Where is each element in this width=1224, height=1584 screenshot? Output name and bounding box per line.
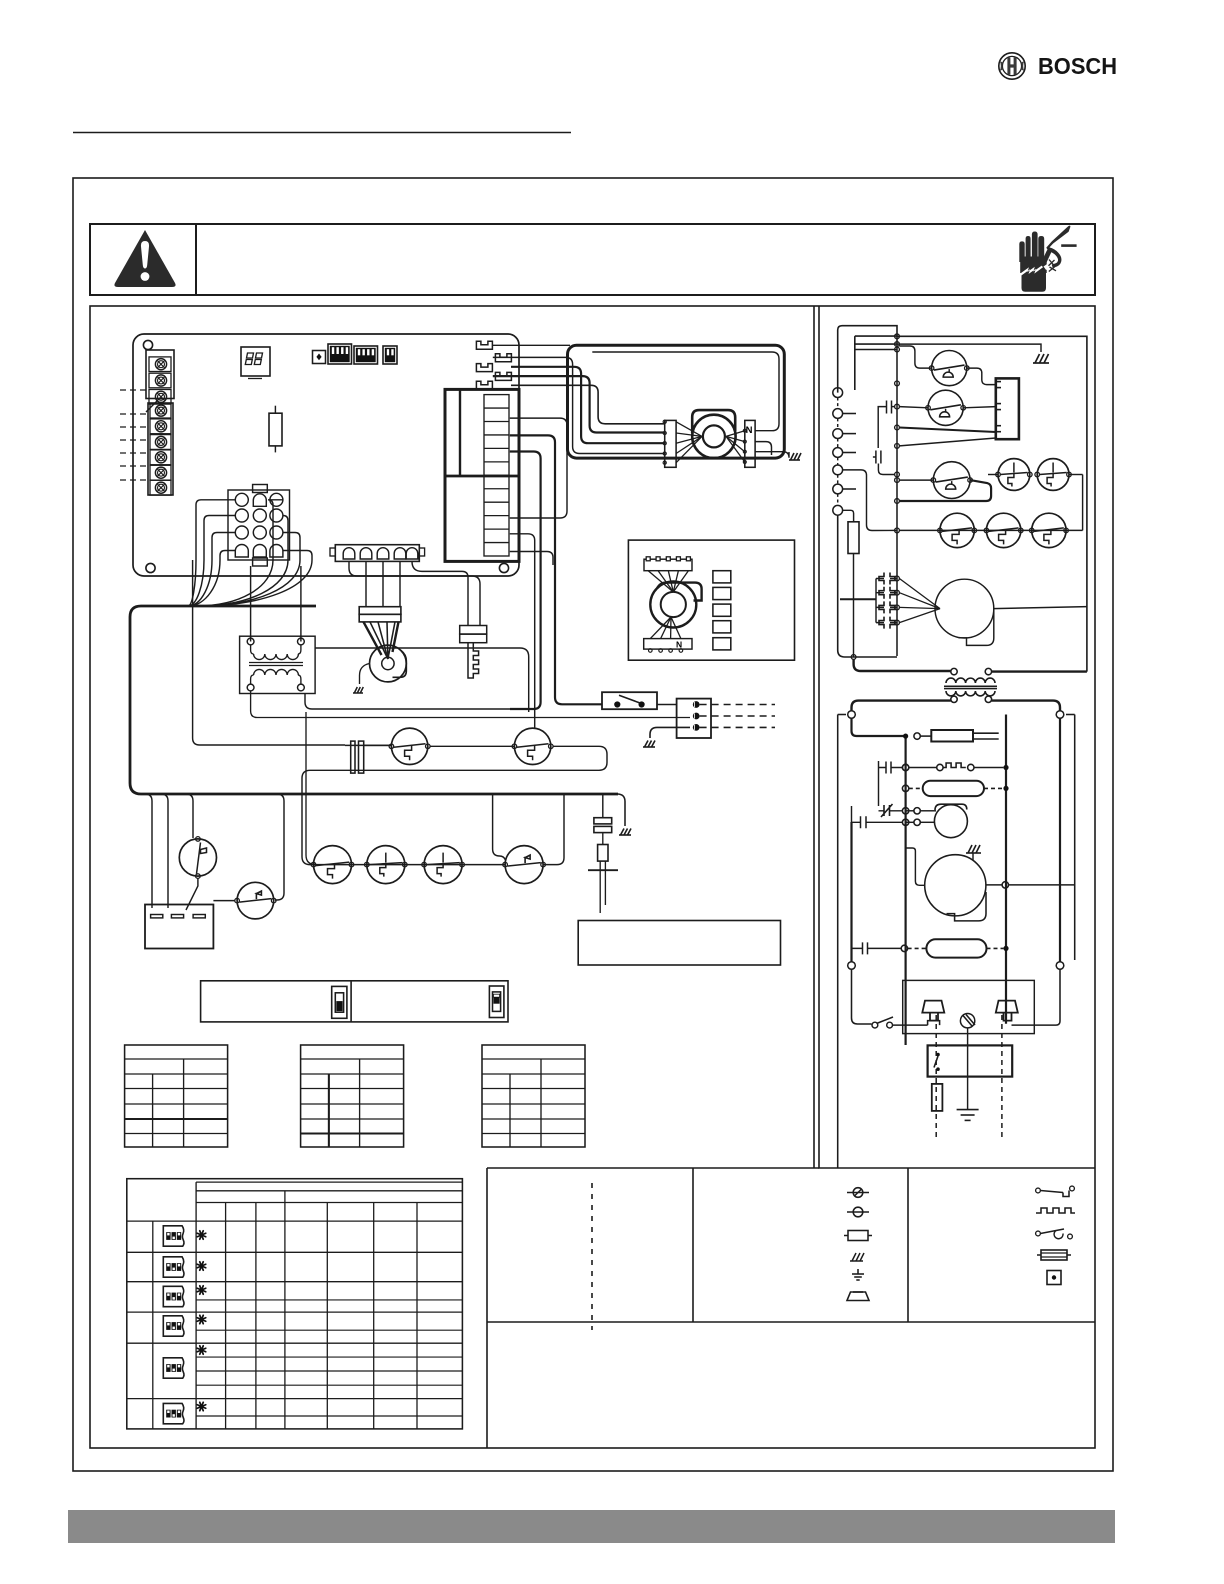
M3 left wire	[899, 479, 933, 481]
board mounting hole top-left	[143, 340, 152, 349]
electric shock hand icon	[1018, 226, 1077, 292]
blower motor connector strip	[665, 420, 676, 467]
DIP switch bank S1	[328, 344, 352, 364]
connector J2 (12-pin)	[228, 490, 290, 560]
footer grey bar	[68, 1510, 1115, 1543]
LV central rail	[904, 736, 906, 1045]
DIP table column lines	[195, 1182, 197, 1429]
blower ground wire	[755, 452, 789, 458]
wire J1 to pressure switch top	[510, 534, 535, 729]
ground symbol (blower)	[789, 453, 801, 460]
terminal block TB2 (6 screws)	[148, 403, 173, 495]
fan lead fan-in	[899, 579, 940, 609]
legend symbol: chassis ground	[850, 1253, 864, 1261]
7-segment diagnostic display	[241, 347, 270, 376]
config table 2	[301, 1045, 404, 1147]
fuse F1	[274, 406, 276, 453]
flame sensor feed	[602, 795, 604, 818]
thermostat terminal strip circles	[833, 388, 843, 398]
resistor R1 (right panel)	[843, 510, 854, 522]
fan right wire	[993, 607, 1087, 609]
gas valve solenoid motor	[370, 622, 388, 659]
connector block J1 (thick housing)	[445, 389, 519, 561]
config table 3	[482, 1045, 585, 1147]
LV trim capacitor	[881, 804, 893, 817]
rollout switch RS	[179, 839, 216, 876]
svg-text:BOSCH: BOSCH	[1038, 53, 1117, 79]
warning triangle icon	[114, 230, 175, 287]
DIP table sub row lines	[196, 1299, 462, 1301]
pressure switch PS1	[391, 728, 427, 764]
DIP configuration table frame	[127, 1179, 463, 1429]
CB diagonal wires	[899, 428, 995, 433]
legend symbol: terminal circle	[847, 1207, 869, 1217]
plug right wire	[1012, 969, 1061, 1025]
inducer relay square 3	[713, 604, 731, 616]
capacitor bars (quick connect)	[351, 741, 355, 773]
4-circle row wire	[310, 864, 505, 866]
interlock switch contacts	[872, 1022, 878, 1028]
3-pin connector (thermostat side)	[677, 699, 711, 738]
M3 right thick loop	[899, 480, 991, 501]
neutral strip N1	[745, 420, 755, 467]
blower motor BM	[692, 415, 735, 458]
wire transformer to 3-pin middle	[251, 691, 690, 718]
blower feed wire	[906, 848, 925, 885]
inducer connector top	[644, 559, 692, 571]
wire J1 jumper loop	[510, 418, 567, 518]
capacitor C1 (right panel)	[887, 401, 892, 414]
wire J2 to transformer primary right	[300, 566, 302, 642]
T2 feed right thick	[992, 670, 1087, 672]
screw symbol	[960, 1014, 974, 1028]
left/right section divider	[813, 306, 815, 1168]
transformer T2 terminals bottom	[951, 696, 957, 702]
LED indicator box	[313, 351, 326, 364]
dashed leads to thermostat	[700, 704, 775, 706]
inducer compartment box	[628, 540, 794, 660]
ground symbol (gas valve)	[353, 687, 363, 693]
legend symbol: switch	[1036, 1229, 1073, 1239]
terminal 7 drop wire	[838, 515, 897, 657]
dashed lead left plug	[935, 1015, 937, 1140]
hot surface igniter HSI	[460, 626, 487, 635]
inducer relay square 4	[713, 621, 731, 633]
3-pin ground wire	[650, 727, 690, 738]
main diagram frame	[90, 306, 1095, 1448]
wire tab1 to blower box corner	[492, 344, 570, 346]
DIP switch bank S3	[383, 346, 397, 364]
transformer T1 box	[240, 636, 316, 693]
inducer motor IDM	[650, 582, 696, 628]
inducer relay square 2	[713, 587, 731, 599]
notes box top border	[487, 1321, 1095, 1323]
plug left	[922, 1001, 944, 1021]
terminal stub wires	[843, 413, 856, 415]
wire riser left of door switch	[305, 694, 534, 710]
LV right rail outer bottom	[1059, 718, 1061, 961]
wire J1 lower stub	[510, 552, 553, 566]
switch SA2 (arrow)	[1037, 459, 1069, 491]
J2 right column jog wires	[268, 500, 283, 560]
motor M2 (right panel)	[928, 390, 963, 425]
warning banner box	[90, 224, 1095, 295]
ground symbol (bus end)	[619, 829, 631, 836]
dashed field-wiring stubs	[120, 389, 146, 391]
flame sensor zigzag row	[902, 764, 908, 770]
pressure switch PS3	[314, 846, 352, 884]
low voltage section frame	[837, 715, 839, 1169]
legend row top border	[487, 1167, 819, 1169]
neutral stub wire	[755, 442, 771, 455]
gas valve connector	[359, 607, 401, 615]
board mounting hole bottom-left	[146, 563, 155, 572]
inducer lead fan top	[648, 571, 673, 592]
inducer lead fan bottom	[650, 617, 671, 639]
connector J5 (5-pin)	[335, 545, 419, 562]
panel feed wires top-left	[838, 326, 897, 393]
fuse (LV)	[932, 1084, 943, 1111]
legend column divider 1	[692, 1168, 694, 1322]
control board outline	[133, 334, 519, 576]
config table 1	[125, 1045, 228, 1147]
wire board to capacitor row	[193, 560, 345, 745]
LV capacitor 3	[863, 942, 868, 954]
LV large blower	[925, 855, 986, 916]
row B wire	[899, 529, 1082, 531]
ground symbol (3-pin)	[643, 741, 655, 748]
igniter feed wires	[412, 561, 468, 625]
terminal block TB1 (3 screws)	[146, 350, 174, 399]
flame rod pill (dashed)	[923, 781, 984, 796]
legend symbol: bell	[847, 1292, 869, 1301]
blower motor lead fan-out	[726, 431, 745, 437]
pressure switch PS2	[514, 728, 550, 764]
connector block CB (right panel)	[996, 378, 1019, 439]
Bosch logo armature circle	[999, 53, 1025, 79]
wire left circle to interlock	[852, 969, 872, 1024]
legend symbol: relay contact	[1036, 1186, 1075, 1196]
motor M3 (right panel)	[933, 462, 970, 499]
legend dashed separator	[591, 1183, 593, 1330]
igniter rail feed	[840, 598, 876, 600]
burner blower fan scroll	[935, 579, 994, 638]
legend symbol: thermal switch	[847, 1188, 869, 1198]
pressure switch PS4	[367, 846, 405, 884]
switch SB1	[940, 513, 974, 547]
wire capacitor row	[345, 744, 391, 746]
blower right node	[1002, 882, 1008, 888]
LV left rail	[852, 718, 906, 736]
M1 left wire	[899, 346, 931, 368]
flame sensor connector bars	[594, 818, 612, 824]
blower compartment enclosure	[568, 345, 785, 458]
earth ground (LV)	[967, 1028, 969, 1110]
LV left rail bottom	[850, 822, 852, 962]
door relay box	[928, 1045, 1013, 1076]
legend column divider 2	[907, 1168, 909, 1322]
switch SB2	[986, 513, 1020, 547]
speed switch 1	[332, 986, 347, 1018]
door interlock switch	[602, 692, 657, 709]
M2 right wire	[963, 407, 996, 408]
ground symbol (panel top)	[1033, 354, 1049, 363]
label box (model note)	[578, 921, 780, 966]
legend symbol: earth ground	[852, 1269, 864, 1280]
switch SA1 (arrow)	[998, 459, 1030, 491]
DIP row icons and asterisks	[163, 1226, 184, 1246]
chassis ground (LV top)	[966, 845, 981, 853]
J2 left column jog wires	[196, 500, 235, 560]
harness branch arcs from J2 left columns	[188, 560, 196, 606]
wires tabs to blower compartment	[493, 357, 665, 453]
LV capacitor 2	[861, 816, 867, 828]
T2 secondary right thick	[992, 701, 1060, 711]
SA wires	[988, 474, 998, 476]
limit switch LS	[237, 882, 274, 919]
wire inducer-area horizontal	[315, 648, 529, 712]
LV small blower	[934, 805, 967, 838]
gas valve wires from J5	[365, 561, 367, 606]
T2 feed left thick	[854, 659, 951, 671]
plug right	[996, 1001, 1018, 1021]
harness trunk (thick bus left)	[130, 606, 618, 794]
rollout to relay box wire	[186, 878, 198, 910]
LV pill 2 (dashed)	[926, 939, 986, 957]
wire drops from bus	[145, 794, 152, 908]
J1 pin header cells	[484, 395, 509, 556]
gas valve GV symbol	[914, 733, 920, 739]
panel chassis wire to ground	[897, 344, 1041, 352]
T2 secondary left thick	[852, 701, 951, 711]
motor M1 (right panel)	[932, 351, 967, 386]
igniter left rail	[876, 579, 897, 623]
transformer T1 windings	[247, 638, 254, 645]
limit switch left wire	[213, 900, 234, 902]
outer page frame	[73, 178, 1113, 1471]
harness branch arcs from J2 right columns	[196, 560, 273, 606]
wire J1 to door switch (hot)	[510, 435, 602, 704]
terminal dashed links	[837, 398, 839, 409]
inducer connector bottom	[644, 639, 692, 650]
TB2 chamfer mark	[146, 400, 158, 412]
M1 right wire	[967, 368, 996, 385]
gas valve ground wire	[360, 664, 370, 685]
blower motor lead fan-in	[676, 422, 702, 437]
blower speed switch box	[201, 981, 508, 1022]
igniter element symbols (right panel)	[879, 573, 895, 585]
terminal 5 jog wire	[843, 470, 897, 531]
speed switch 2	[489, 986, 504, 1018]
M2 left wire	[899, 407, 928, 408]
neutral return loop wire	[592, 352, 779, 431]
legend symbol: fuse rect	[844, 1231, 872, 1241]
legend symbol: LED square	[1047, 1271, 1061, 1285]
board spade tabs	[476, 341, 492, 349]
right panel vertical bus	[896, 336, 898, 656]
LV right rail	[1005, 715, 1007, 1024]
inducer relay square 1	[713, 571, 731, 583]
relay terminal box	[145, 905, 213, 949]
switch SB3	[1032, 513, 1066, 547]
dashed lead right plug	[1001, 1015, 1003, 1140]
pressure switch PS5	[424, 846, 462, 884]
SA right riser	[1082, 475, 1084, 531]
wire PS1-PS2	[430, 745, 514, 747]
inducer relay square 5	[713, 638, 731, 650]
thermostat plug box	[903, 980, 1035, 1033]
tables section left border	[486, 1168, 488, 1448]
DIP switch bank S2	[354, 346, 378, 364]
warning banner divider	[195, 224, 197, 295]
DIP table header band lines	[196, 1190, 462, 1192]
panel top loop wire	[897, 336, 1087, 671]
legend symbol: heater zigzag	[1036, 1208, 1075, 1213]
transformer T2 terminals top	[951, 668, 957, 674]
DIP table header top inset	[196, 1181, 462, 1183]
legend symbol: cartridge fuse	[1037, 1250, 1071, 1260]
right panel frame	[819, 306, 1095, 1168]
riser from door feed to lower row	[306, 712, 316, 865]
transformer T2 windings	[946, 678, 995, 683]
bus end ground drop	[618, 794, 625, 826]
bus node circles	[895, 334, 900, 339]
svg-text:N: N	[676, 640, 682, 650]
limit switch LS2	[505, 846, 543, 884]
LV capacitor 1	[886, 762, 891, 774]
U-turn return wire	[302, 746, 607, 864]
LS2 right riser to bus	[543, 794, 564, 865]
top rule line	[73, 132, 571, 134]
wire J1 down left branch	[510, 452, 541, 710]
capacitor C2 (right panel)	[876, 451, 881, 464]
board mounting hole bottom-right	[499, 563, 508, 572]
flame sensor body	[602, 833, 604, 845]
feed to LS2 from bus	[493, 794, 506, 860]
DIP table row lines	[127, 1251, 463, 1253]
wire J2 to transformer primary left	[250, 566, 252, 642]
